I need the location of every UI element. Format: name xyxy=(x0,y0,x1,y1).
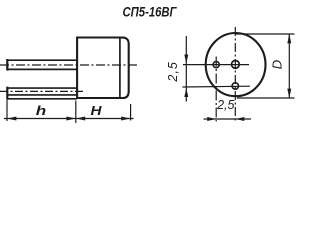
lead 2 (lower pin) xyxy=(7,87,77,100)
arrow h right xyxy=(66,117,75,121)
svg-text:h: h xyxy=(36,103,47,118)
lead 1 (upper pin) xyxy=(7,59,77,71)
arrow H left xyxy=(76,117,85,121)
bottom pin horizontal crosshair / extension xyxy=(183,85,251,88)
dimension H extension line right xyxy=(130,104,132,121)
svg-text:D: D xyxy=(270,60,285,69)
dimension h extension line left xyxy=(6,100,8,122)
dimension extension line at body face xyxy=(75,101,77,124)
left dimension 2,5 line xyxy=(185,36,187,102)
body cap line xyxy=(119,38,121,99)
base line under lower pin xyxy=(7,98,77,100)
dimension line h/H xyxy=(4,118,134,120)
vertical centerline of end view xyxy=(234,27,236,122)
center pin xyxy=(232,61,240,69)
bottom dimension 2,5 line xyxy=(204,118,252,120)
arrow h left xyxy=(7,117,16,121)
body centerline xyxy=(0,64,139,66)
svg-text:H: H xyxy=(91,103,103,118)
svg-text:2,5: 2,5 xyxy=(166,61,180,82)
D dim up arrow xyxy=(287,34,291,43)
bottom pin xyxy=(232,83,238,89)
bottom dim right arrow xyxy=(235,117,244,121)
bottom dim left arrow xyxy=(207,117,216,121)
left pin vertical line / extension xyxy=(215,57,217,122)
D dimension line xyxy=(288,34,290,98)
left pin xyxy=(213,62,219,68)
horizontal line through pin row xyxy=(183,64,249,66)
svg-text:2,5: 2,5 xyxy=(216,98,234,112)
svg-text:СП5-16ВГ: СП5-16ВГ xyxy=(123,3,178,19)
D dim bottom extension line xyxy=(237,97,295,99)
end view circle xyxy=(206,33,266,96)
D dim down arrow xyxy=(287,89,291,98)
left dim up arrow xyxy=(184,88,188,97)
D dim top extension line xyxy=(235,33,294,35)
arrow H right xyxy=(121,117,130,121)
left dim down arrow xyxy=(184,55,188,64)
lower pin centerline xyxy=(0,90,84,92)
body outline (side view) xyxy=(77,38,129,99)
